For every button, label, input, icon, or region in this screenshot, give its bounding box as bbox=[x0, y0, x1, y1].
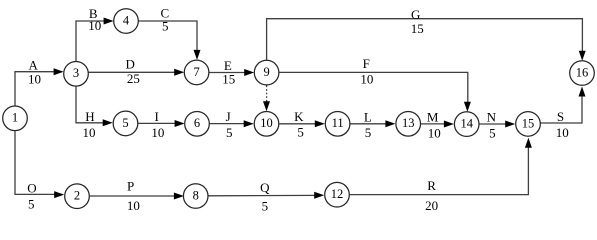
node 4 bbox=[114, 9, 139, 34]
node 6 bbox=[185, 112, 210, 137]
svg-text:25: 25 bbox=[127, 71, 140, 86]
svg-text:10: 10 bbox=[83, 125, 96, 140]
svg-text:2: 2 bbox=[74, 189, 80, 203]
svg-text:15: 15 bbox=[522, 116, 535, 130]
svg-text:12: 12 bbox=[331, 187, 344, 201]
node 10 bbox=[254, 112, 279, 137]
svg-text:5: 5 bbox=[365, 125, 372, 140]
activity R (12-15) bbox=[350, 138, 532, 213]
svg-text:G: G bbox=[411, 7, 420, 22]
svg-text:5: 5 bbox=[28, 196, 35, 211]
activity N (14-15) bbox=[480, 110, 516, 141]
node 8 bbox=[183, 184, 208, 209]
svg-text:F: F bbox=[363, 56, 370, 71]
activity C (4-7) bbox=[138, 6, 200, 60]
svg-text:S: S bbox=[557, 109, 564, 124]
svg-text:10: 10 bbox=[127, 198, 140, 213]
svg-text:I: I bbox=[155, 109, 159, 124]
svg-text:L: L bbox=[364, 109, 372, 124]
svg-text:10: 10 bbox=[556, 125, 569, 140]
svg-text:10: 10 bbox=[28, 71, 41, 86]
svg-text:7: 7 bbox=[193, 65, 199, 79]
activity E (7-9) bbox=[209, 58, 254, 87]
activity H (3-5) bbox=[76, 86, 113, 140]
activity G (9-16) bbox=[267, 7, 586, 61]
activity K (10-11) bbox=[279, 109, 325, 140]
svg-text:3: 3 bbox=[73, 66, 79, 80]
svg-text:10: 10 bbox=[428, 126, 441, 141]
activity J (6-10) bbox=[210, 109, 254, 140]
svg-text:10: 10 bbox=[151, 125, 164, 140]
svg-text:10: 10 bbox=[260, 116, 273, 130]
svg-text:15: 15 bbox=[222, 72, 235, 87]
svg-text:N: N bbox=[487, 110, 497, 125]
node 15 bbox=[516, 112, 541, 137]
node 3 bbox=[64, 62, 89, 87]
node 13 bbox=[396, 112, 421, 137]
svg-text:Q: Q bbox=[260, 180, 270, 195]
svg-text:10: 10 bbox=[360, 72, 373, 87]
svg-text:20: 20 bbox=[425, 198, 438, 213]
svg-text:14: 14 bbox=[460, 117, 473, 131]
svg-text:13: 13 bbox=[402, 116, 415, 130]
svg-text:J: J bbox=[226, 109, 231, 124]
activity O (1-2) bbox=[15, 131, 64, 211]
activity I (5-6) bbox=[138, 109, 184, 140]
node 12 bbox=[325, 182, 350, 207]
svg-text:15: 15 bbox=[411, 21, 424, 36]
svg-text:K: K bbox=[294, 109, 304, 124]
svg-text:5: 5 bbox=[122, 116, 128, 130]
svg-text:R: R bbox=[427, 178, 436, 193]
activity F (9-14) bbox=[279, 56, 471, 112]
svg-text:D: D bbox=[126, 56, 135, 71]
svg-text:9: 9 bbox=[263, 65, 269, 79]
svg-text:5: 5 bbox=[262, 199, 269, 214]
svg-text:A: A bbox=[29, 57, 39, 72]
activity M (13-14) bbox=[421, 110, 454, 141]
node 5 bbox=[113, 111, 138, 136]
svg-text:5: 5 bbox=[162, 19, 169, 34]
node 11 bbox=[325, 112, 350, 137]
node 9 bbox=[254, 60, 279, 85]
svg-text:10: 10 bbox=[88, 18, 101, 33]
svg-text:5: 5 bbox=[297, 124, 304, 139]
svg-text:P: P bbox=[127, 178, 134, 193]
svg-text:16: 16 bbox=[576, 65, 589, 79]
svg-text:5: 5 bbox=[489, 126, 496, 141]
node 14 bbox=[454, 112, 479, 137]
svg-text:6: 6 bbox=[194, 116, 200, 130]
activity P (2-8) bbox=[90, 178, 184, 213]
activity Q (8-12) bbox=[208, 180, 324, 214]
svg-text:H: H bbox=[85, 109, 94, 124]
svg-text:M: M bbox=[427, 110, 439, 125]
node 1 bbox=[3, 106, 28, 131]
activity A (1-3) bbox=[15, 57, 64, 106]
svg-text:8: 8 bbox=[193, 188, 199, 202]
svg-text:11: 11 bbox=[332, 116, 344, 130]
svg-text:5: 5 bbox=[226, 125, 233, 140]
node 2 bbox=[65, 184, 90, 209]
activity D (3-7) bbox=[88, 56, 184, 86]
dummy activity (9-10) bbox=[263, 86, 270, 112]
svg-text:1: 1 bbox=[12, 111, 18, 125]
svg-text:4: 4 bbox=[123, 13, 130, 27]
node 16 bbox=[570, 61, 595, 86]
svg-text:O: O bbox=[27, 181, 36, 196]
activity B (3-4) bbox=[76, 6, 114, 61]
node 7 bbox=[184, 60, 209, 85]
activity S (15-16) bbox=[540, 87, 585, 140]
activity L (11-13) bbox=[350, 109, 395, 140]
